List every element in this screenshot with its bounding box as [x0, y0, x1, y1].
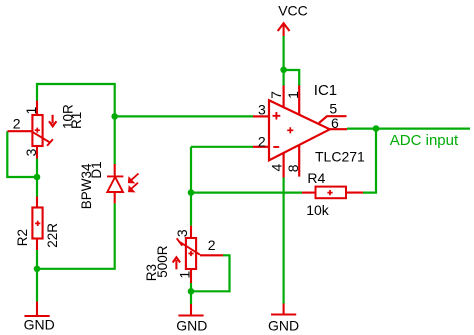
R1 adjust arrow — [49, 115, 56, 127]
resistor R4 — [302, 187, 363, 199]
svg-text:R1: R1 — [69, 112, 84, 129]
wire R4 right up to output node — [363, 129, 376, 193]
junction node R3 pin1 / pin2 tie — [188, 288, 195, 295]
wire from D1 node to op-amp pin 3 — [115, 115, 253, 117]
op-amp IC1 — [253, 86, 347, 178]
svg-text:GND: GND — [268, 318, 299, 334]
resistor R3 (trimmer) — [177, 226, 223, 283]
resistor R1 (trimmer) — [8, 101, 53, 159]
svg-text:8: 8 — [285, 164, 301, 172]
ground symbol right — [271, 304, 296, 315]
svg-text:1: 1 — [285, 91, 301, 99]
wire R3 bottom node to GND — [190, 283, 192, 304]
photodiode D1 — [107, 164, 123, 203]
svg-text:R4: R4 — [307, 170, 325, 186]
wire R2 pin2 to GND — [36, 250, 38, 302]
wire inverting node vertical down to R3 — [190, 147, 192, 226]
wire R1 pin2 loop — [7, 131, 37, 177]
ground symbol left — [25, 302, 50, 317]
svg-text:6: 6 — [331, 115, 339, 131]
wire R1 pin3 to R2 pin1 — [36, 159, 38, 197]
wire feedback node to R4 left — [191, 192, 302, 194]
R3 adjust arrow — [173, 257, 180, 269]
junction node inverting input / feedback — [188, 189, 195, 196]
svg-text:GND: GND — [176, 318, 207, 334]
svg-text:2: 2 — [208, 237, 216, 253]
VCC supply symbol — [278, 23, 290, 36]
svg-text:2: 2 — [258, 134, 266, 150]
D1 light arrow 2 — [129, 183, 138, 192]
svg-text:3: 3 — [23, 148, 39, 156]
IC1 inverting input minus mark — [273, 146, 279, 148]
wire op-amp output to ADC input — [347, 128, 470, 130]
svg-text:4: 4 — [268, 164, 284, 172]
svg-text:TLC271: TLC271 — [315, 149, 365, 165]
D1 light arrow 1 — [128, 174, 138, 183]
svg-text:2: 2 — [13, 115, 21, 131]
wire D1 bottom to R2 top node — [37, 203, 115, 268]
ground symbol middle — [178, 304, 203, 316]
svg-text:22R: 22R — [45, 223, 60, 248]
resistor R2 — [32, 197, 42, 251]
svg-text:R2: R2 — [15, 229, 30, 246]
wire op-amp pin 4 down to GND — [283, 178, 285, 304]
junction node at D1 / pin3 branch — [111, 113, 118, 120]
svg-text:3: 3 — [174, 229, 190, 237]
junction node R1 pin2/pin3 tie — [34, 174, 41, 181]
svg-text:7: 7 — [268, 91, 284, 99]
svg-text:ADC input: ADC input — [390, 132, 459, 149]
svg-text:IC1: IC1 — [314, 82, 337, 99]
wire R3 pin2 loop — [191, 255, 230, 291]
svg-text:1: 1 — [176, 271, 192, 279]
svg-text:500R: 500R — [155, 245, 170, 278]
svg-text:10k: 10k — [306, 202, 330, 218]
wire VCC node jog to pin 1 — [284, 70, 300, 86]
junction node at VCC / pin1 jog — [280, 67, 287, 74]
svg-text:1: 1 — [23, 107, 39, 115]
svg-text:3: 3 — [258, 101, 266, 117]
svg-text:GND: GND — [24, 316, 55, 332]
svg-text:VCC: VCC — [278, 2, 308, 18]
junction node output / R4 — [373, 125, 380, 132]
junction node R2 top / D1 return — [34, 266, 41, 273]
IC1 center plus mark — [287, 127, 293, 133]
svg-text:D1: D1 — [89, 161, 104, 178]
wire inverting node horizontal to op-amp pin 2 — [191, 146, 253, 148]
wire top-left from R1 top over to D1 top — [37, 84, 115, 164]
IC1 non-inverting input plus mark — [273, 112, 281, 120]
wire VCC down to pin 7 — [283, 36, 285, 86]
